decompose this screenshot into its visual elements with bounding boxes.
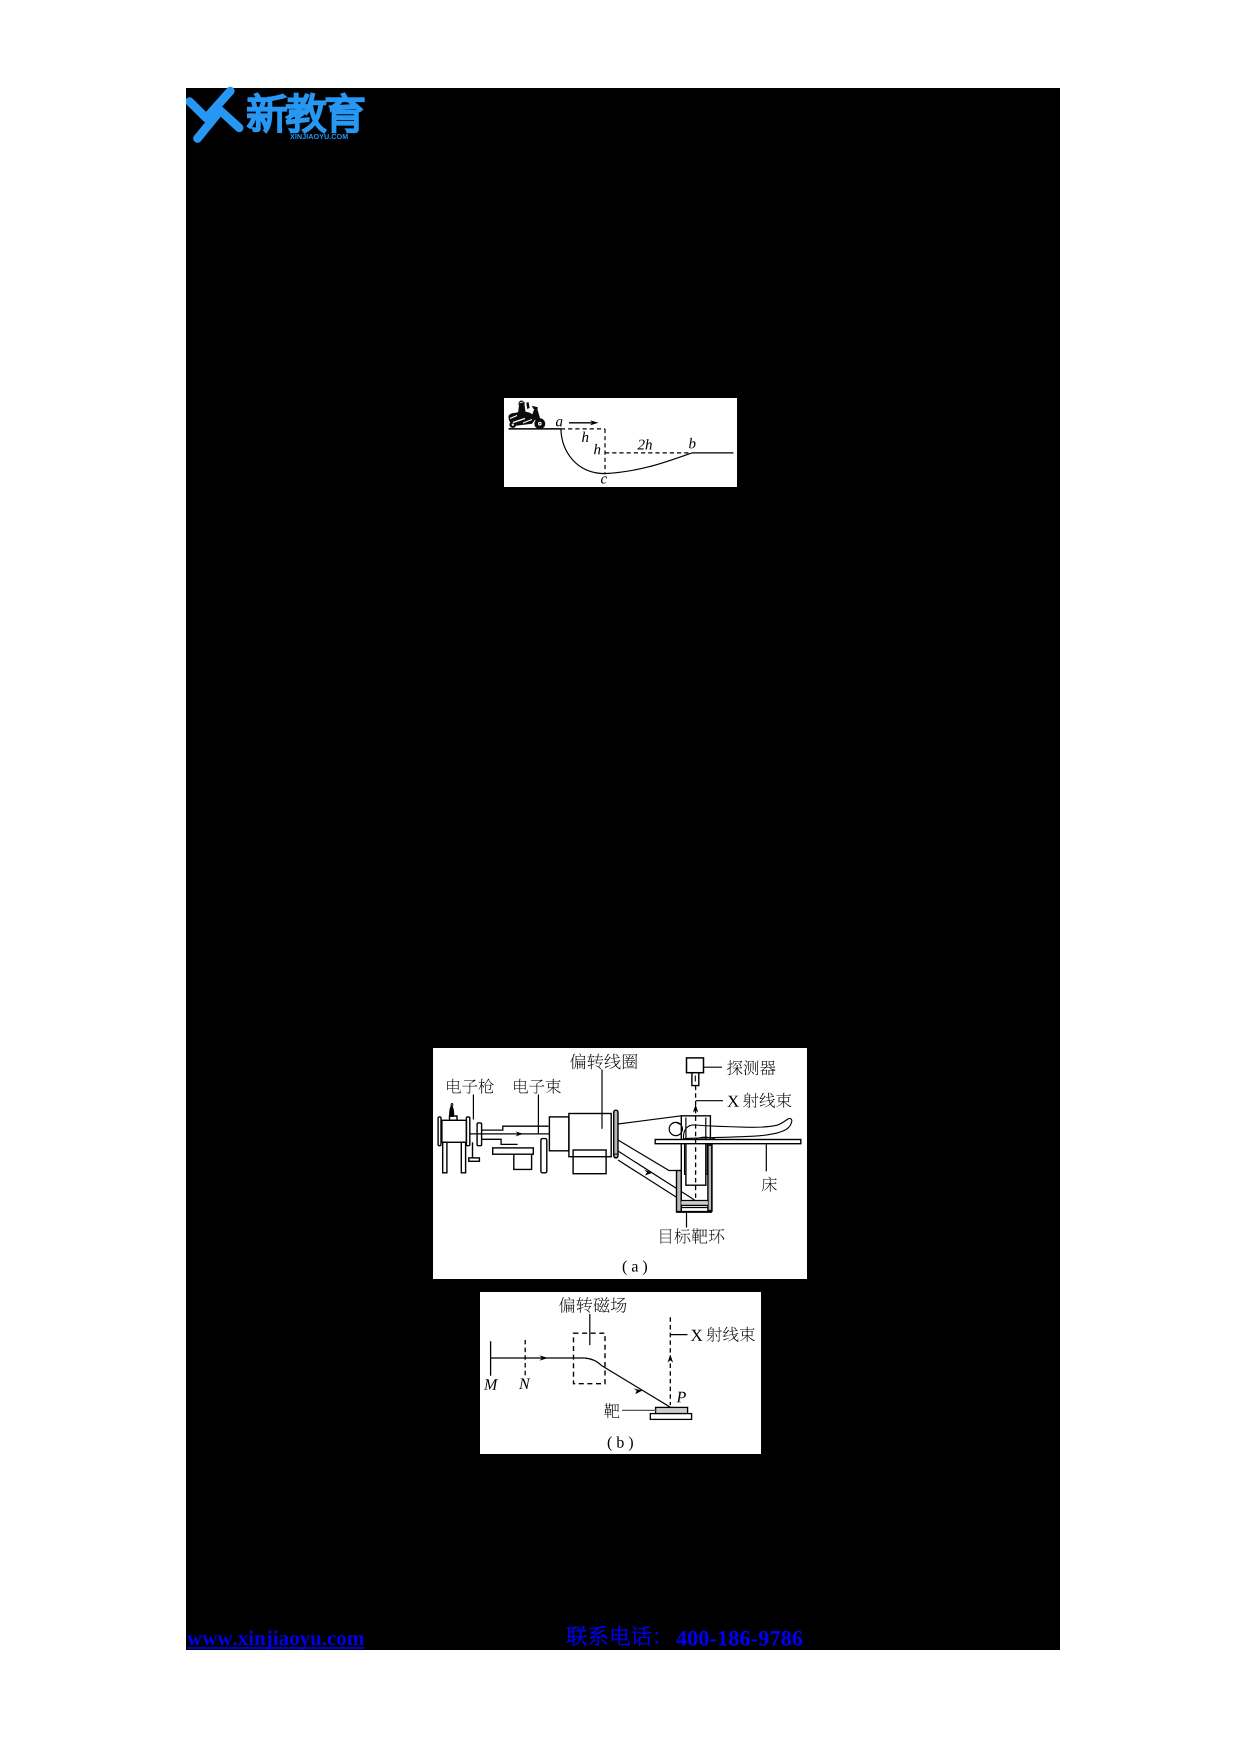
detector leader — [704, 1066, 723, 1068]
beam arrowhead — [644, 1170, 653, 1176]
figure (a): electron beam CT scanner — [433, 1048, 807, 1279]
label 目标靶环 — [661, 1229, 672, 1244]
label 靶 — [604, 1403, 619, 1418]
cone line d1 — [618, 1140, 677, 1171]
ground line left — [508, 427, 560, 429]
label h upper — [582, 431, 588, 441]
end plate pivot — [614, 1154, 618, 1158]
dashed field box — [574, 1333, 606, 1384]
beam pipe — [470, 1126, 550, 1144]
label 电子枪 — [447, 1079, 461, 1094]
label 2h — [637, 439, 644, 449]
patient arm — [696, 1137, 715, 1139]
beam arrow — [540, 1355, 549, 1360]
plate N dashed — [524, 1340, 526, 1376]
motorcycle — [508, 400, 545, 429]
label 偏转线圈 — [570, 1054, 586, 1070]
dashed line b-level — [605, 451, 691, 453]
label P — [676, 1392, 686, 1403]
diagonal arrowhead — [634, 1389, 643, 1395]
target pedestal top — [656, 1407, 688, 1413]
logo xinjiaoyu — [186, 84, 386, 146]
leader 偏转磁场 — [589, 1314, 591, 1345]
beam curve and diagonal — [584, 1358, 670, 1407]
electron gun — [438, 1116, 482, 1173]
x-ray arrowhead — [693, 1105, 698, 1113]
logo icon stroke 1 — [190, 91, 231, 118]
logo icon stroke 2 — [198, 111, 240, 139]
lower block — [573, 1150, 606, 1174]
label 电子束 — [514, 1079, 528, 1094]
label c — [601, 476, 607, 483]
deflection end plate — [614, 1110, 618, 1157]
label 探测器 — [727, 1060, 742, 1075]
label X射线束 X — [691, 1330, 703, 1341]
plate M — [490, 1341, 492, 1376]
footer link www.xinjiaoyu.com — [180, 1622, 400, 1654]
cone upper line — [618, 1116, 681, 1124]
leader 偏转线圈 — [601, 1070, 603, 1129]
logo subtext — [290, 134, 295, 139]
leader 床 — [765, 1144, 767, 1171]
cone line d3 — [618, 1160, 677, 1197]
velocity arrow — [569, 421, 596, 423]
dashed vertical at step — [604, 428, 606, 473]
caption (b) — [608, 1436, 612, 1451]
x-ray dashed line — [669, 1317, 671, 1405]
patient body — [683, 1118, 791, 1138]
cone line d2 (beam) — [618, 1151, 695, 1200]
gun flame — [449, 1105, 454, 1117]
beam line — [491, 1357, 585, 1359]
label h lower — [594, 443, 600, 453]
x-ray label tick — [696, 1100, 723, 1102]
detector stem — [692, 1073, 699, 1086]
target ring housing — [677, 1144, 712, 1212]
detector box — [687, 1058, 704, 1073]
label X射线束 — [727, 1096, 739, 1107]
leader 目标靶环 — [686, 1212, 688, 1228]
footer phone — [560, 1620, 820, 1654]
label b — [689, 437, 695, 448]
caption (a) — [623, 1260, 627, 1275]
dashed line a-level — [560, 427, 604, 429]
label N — [519, 1379, 531, 1390]
deflection yoke main block — [569, 1114, 611, 1157]
x-ray dashed beam — [695, 1086, 697, 1199]
x-ray tick — [671, 1334, 688, 1336]
collimator bar — [493, 1148, 534, 1154]
target pedestal base — [650, 1414, 691, 1420]
leader 靶 — [622, 1409, 656, 1411]
patient head — [669, 1122, 682, 1135]
x-ray arrowhead — [668, 1355, 674, 1363]
collimator foot — [514, 1154, 532, 1169]
ground line right — [692, 451, 734, 453]
gantry above bed — [681, 1116, 710, 1140]
leader 电子枪 — [472, 1095, 474, 1120]
label M — [484, 1379, 498, 1390]
deflection yoke small block — [549, 1117, 569, 1151]
figure (b): magnetic deflection — [480, 1292, 761, 1454]
leader 电子束 — [537, 1095, 539, 1134]
figure 1: motorcycle and dip — [504, 398, 737, 487]
bed table — [655, 1140, 801, 1144]
label a — [555, 419, 562, 426]
logo text 新教育 — [249, 94, 286, 131]
curve a to c to b — [560, 428, 691, 473]
beam arrow — [516, 1131, 524, 1136]
black page body background — [186, 88, 1060, 1650]
label 偏转磁场 — [559, 1297, 575, 1313]
plate — [541, 1139, 547, 1173]
label 床 — [762, 1177, 777, 1192]
